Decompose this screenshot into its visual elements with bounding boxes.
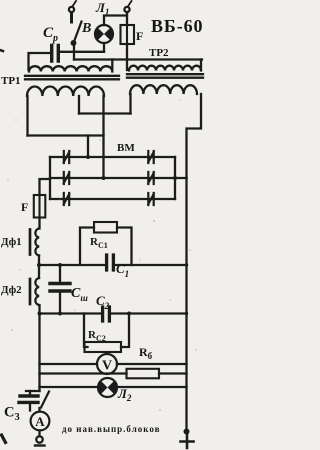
wire TP1-TP2 link: [79, 112, 131, 114]
node dot bus line1: [185, 263, 188, 266]
label C3: [4, 405, 20, 424]
wire TP1 primary right end: [111, 60, 113, 71]
capacitor Csh: [50, 284, 70, 292]
svg-text:ВБ-60: ВБ-60: [151, 16, 203, 36]
switch V terminal: [69, 7, 74, 12]
label Df2: [1, 284, 22, 296]
capacitor C3: [19, 396, 38, 402]
RC2 loop right: [121, 314, 129, 348]
transformer TP2 secondary winding: [130, 85, 197, 94]
label RC2: [88, 329, 106, 343]
label C2: [96, 293, 110, 311]
wire bridge to fuse F2: [40, 179, 51, 195]
wire C-line2 right: [111, 312, 186, 314]
node dot bus line2: [185, 312, 188, 315]
svg-text:ВМ: ВМ: [117, 142, 135, 154]
wire ammeter bottom: [38, 431, 40, 437]
terminal 2: [124, 7, 129, 12]
switch V stem: [70, 13, 73, 22]
label F top: [136, 29, 143, 43]
wire node line: [28, 134, 104, 136]
label Rb: [139, 345, 153, 361]
wire C-line2 left: [40, 312, 101, 314]
svg-text:до нав.выпр.блоков: до нав.выпр.блоков: [62, 424, 160, 434]
wire Csh top: [59, 265, 61, 282]
wire TP2 primary right end: [200, 60, 202, 71]
wire Df1 to node: [38, 256, 40, 279]
transformer TP2 core: [127, 74, 203, 78]
diode D4: [148, 151, 153, 163]
voltmeter V: [97, 354, 117, 374]
plus sign: [181, 435, 194, 448]
node dot Csh top: [58, 263, 62, 267]
wire TP2 secondary right end: [187, 94, 202, 178]
wire lamp-line right: [117, 386, 187, 388]
ammeter A: [31, 412, 50, 431]
choke Df1 winding: [35, 229, 39, 256]
edge mark top-left: [0, 50, 3, 51]
speckles: [7, 54, 197, 411]
node dot Csh bottom: [58, 312, 62, 316]
svg-text:F: F: [21, 200, 28, 214]
wire Rb-line left: [40, 372, 127, 374]
label Df1: [1, 236, 22, 248]
RC1 loop left: [80, 228, 94, 266]
bridge rail 3: [50, 198, 175, 200]
bridge right tie: [174, 157, 176, 199]
svg-text:F: F: [136, 29, 143, 43]
wire fuse to TP2: [126, 44, 128, 70]
svg-text:ТР1: ТР1: [1, 75, 21, 87]
terminal minus circle: [36, 436, 42, 442]
choke Df2 core: [29, 279, 32, 304]
label L2: [117, 386, 132, 403]
left bus lower: [38, 305, 40, 391]
bottom caption: [62, 424, 160, 434]
switch V tick: [73, 1, 76, 6]
RC2 loop left: [84, 314, 88, 348]
label Csh: [71, 286, 88, 303]
label L1: [95, 0, 109, 17]
wire lamp top: [104, 16, 127, 26]
wire terminal to fuse: [126, 12, 128, 25]
node dot rail1 feed: [86, 155, 90, 159]
svg-text:А: А: [35, 414, 45, 429]
wire TP1 tap down: [78, 96, 80, 114]
fuse F2: [34, 195, 46, 218]
label RC1: [90, 236, 108, 250]
terminal plus dot: [184, 429, 190, 435]
wire fuse to choke: [38, 218, 41, 229]
switch V contact: [72, 41, 76, 45]
wire Csh bottom: [59, 293, 61, 314]
diode D5: [148, 172, 153, 184]
corner blob: [2, 435, 6, 443]
wire C-line1 left: [39, 264, 105, 266]
transformer TP2 primary winding: [129, 66, 201, 71]
switch S2 lever: [41, 392, 49, 408]
wire switch down: [73, 44, 75, 60]
fuse F top: [121, 25, 135, 44]
label C1: [116, 261, 129, 279]
capacitor C1: [107, 255, 114, 270]
label V switch: [81, 21, 91, 36]
wire V-line right: [117, 363, 187, 365]
node dot rail2 right: [173, 176, 177, 180]
transformer TP1 primary winding: [29, 66, 112, 71]
svg-text:Дф1: Дф1: [1, 236, 22, 248]
svg-text:V: V: [102, 359, 112, 374]
bridge rail 2: [50, 177, 187, 179]
wire V-line left: [40, 363, 98, 365]
minus sign: [35, 444, 45, 446]
node dot rail2 feed: [102, 176, 106, 180]
lamp L2: [98, 378, 117, 397]
transformer TP1 core: [25, 76, 119, 80]
right bus: [185, 178, 187, 432]
svg-text:ТР2: ТР2: [149, 47, 169, 59]
label F2: [21, 200, 28, 214]
wire Cp right to lamp: [60, 51, 104, 53]
wire lamp-line left: [40, 386, 99, 388]
resistor Rb: [127, 369, 160, 379]
wire lamp bottom: [103, 43, 105, 52]
wire from Cp left to TP1: [29, 53, 51, 70]
diode D1: [64, 151, 69, 163]
diode D2: [64, 172, 69, 184]
svg-text:В: В: [81, 21, 91, 36]
choke Df1 core: [29, 230, 32, 255]
choke Df2 winding: [35, 278, 39, 305]
capacitor Cp: [52, 46, 59, 62]
wire Rb-line right: [159, 372, 187, 374]
label TP1: [1, 75, 21, 87]
capacitor C2: [103, 307, 110, 321]
label VM: [117, 142, 135, 154]
transformer TP1 secondary winding: [27, 86, 104, 96]
wire feed to rail1: [87, 136, 89, 158]
bridge left bus: [49, 157, 51, 199]
stub C3 top: [29, 391, 31, 395]
terminal 2 tick: [129, 1, 132, 6]
RC1 loop right: [117, 228, 132, 266]
wire mains bus: [74, 58, 202, 60]
bridge rail 1: [50, 156, 175, 158]
svg-text:Дф2: Дф2: [1, 284, 22, 296]
wire TP1 right end to bridge: [102, 96, 104, 178]
wire TP1 secondary left end down: [26, 96, 28, 136]
switch V lever: [74, 22, 82, 44]
resistor RC2: [85, 342, 122, 352]
wire C-line1 right: [115, 264, 186, 266]
wire C3 line: [26, 390, 40, 392]
label TP2: [149, 47, 169, 59]
resistor RC1: [94, 222, 117, 233]
node dot line2 right loop: [127, 312, 131, 316]
capacitor Cp label: [43, 25, 58, 44]
wire C3 bottom: [29, 404, 31, 411]
lamp L1: [95, 25, 113, 43]
label VB-60: [151, 16, 203, 36]
node dot line2 left: [38, 312, 42, 316]
diode D6: [148, 193, 153, 205]
node dot filter: [37, 263, 41, 267]
wire ammeter top: [38, 408, 40, 412]
diode D3: [64, 193, 69, 205]
wire TP2 secondary left end: [129, 94, 131, 114]
